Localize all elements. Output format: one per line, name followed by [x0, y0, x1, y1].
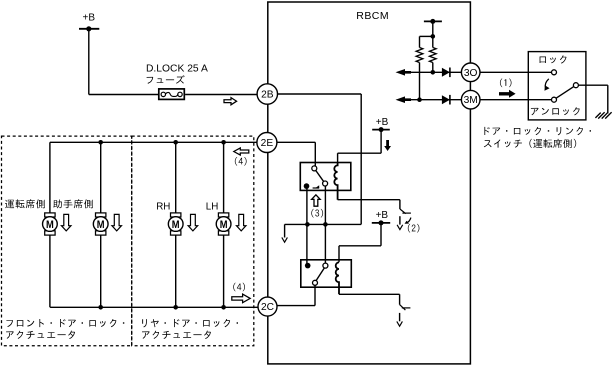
svg-text:RBCM: RBCM [356, 10, 389, 22]
svg-text:2E: 2E [261, 138, 274, 149]
svg-text:RH: RH [156, 202, 170, 213]
svg-text:LH: LH [206, 202, 219, 213]
svg-text:M: M [46, 219, 54, 231]
svg-text:M: M [172, 219, 180, 231]
svg-text:2B: 2B [261, 90, 274, 101]
svg-text:3O: 3O [464, 68, 478, 79]
svg-text:2C: 2C [261, 302, 274, 313]
svg-text:+B: +B [376, 210, 389, 221]
svg-text:+B: +B [376, 117, 389, 128]
svg-text:D.LOCK 25 A: D.LOCK 25 A [146, 63, 208, 74]
svg-text:M: M [220, 219, 228, 231]
svg-text:3M: 3M [464, 95, 478, 106]
svg-text:+B: +B [83, 13, 96, 24]
svg-text:M: M [97, 219, 105, 231]
